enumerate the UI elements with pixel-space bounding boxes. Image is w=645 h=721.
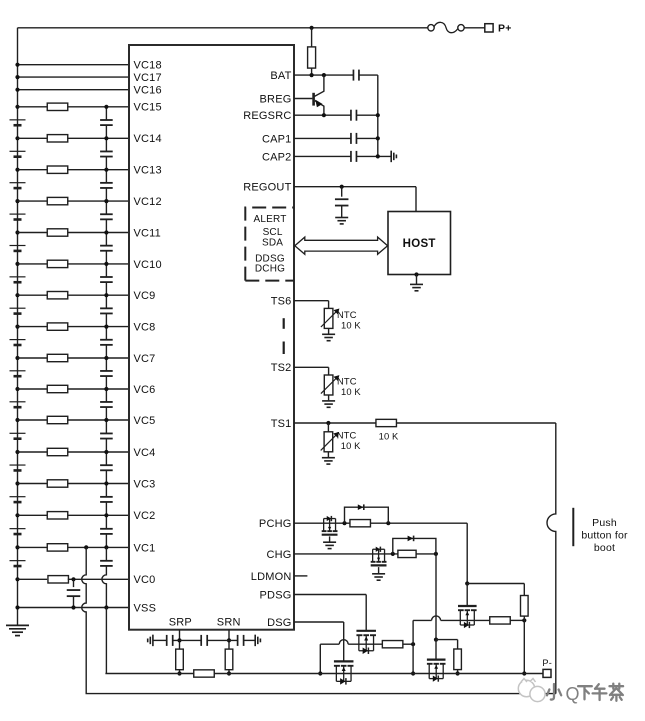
svg-text:REGOUT: REGOUT bbox=[243, 182, 291, 194]
svg-text:Q: Q bbox=[566, 684, 580, 704]
svg-text:10 K: 10 K bbox=[341, 319, 361, 330]
svg-text:P+: P+ bbox=[498, 23, 512, 35]
svg-text:button for: button for bbox=[581, 530, 628, 542]
svg-text:DCHG: DCHG bbox=[255, 263, 285, 274]
svg-text:SRN: SRN bbox=[217, 617, 241, 629]
svg-text:boot: boot bbox=[594, 542, 615, 554]
svg-text:VC4: VC4 bbox=[134, 447, 156, 459]
svg-text:VC16: VC16 bbox=[134, 85, 162, 97]
svg-text:ALERT: ALERT bbox=[253, 214, 286, 225]
svg-text:HOST: HOST bbox=[403, 238, 436, 250]
svg-text:VC8: VC8 bbox=[134, 322, 156, 334]
svg-text:PCHG: PCHG bbox=[259, 518, 292, 530]
svg-text:REGSRC: REGSRC bbox=[243, 110, 291, 122]
svg-text:Push: Push bbox=[592, 517, 617, 529]
svg-text:LDMON: LDMON bbox=[251, 571, 292, 583]
svg-text:VC2: VC2 bbox=[134, 510, 156, 522]
svg-text:TS2: TS2 bbox=[271, 362, 292, 374]
svg-text:10 K: 10 K bbox=[341, 440, 361, 451]
svg-text:BAT: BAT bbox=[270, 70, 291, 82]
svg-text:VC6: VC6 bbox=[134, 384, 156, 396]
svg-text:VC9: VC9 bbox=[134, 290, 156, 302]
svg-text:VC1: VC1 bbox=[134, 542, 156, 554]
svg-text:SRP: SRP bbox=[169, 617, 192, 629]
svg-text:VC7: VC7 bbox=[134, 353, 156, 365]
svg-text:VC5: VC5 bbox=[134, 415, 156, 427]
svg-text:VC15: VC15 bbox=[134, 102, 162, 114]
svg-text:VC17: VC17 bbox=[134, 72, 162, 84]
svg-text:VC12: VC12 bbox=[134, 196, 162, 208]
svg-text:CHG: CHG bbox=[266, 549, 291, 561]
svg-text:PDSG: PDSG bbox=[260, 589, 292, 601]
svg-text:SDA: SDA bbox=[262, 237, 283, 248]
svg-text:VC13: VC13 bbox=[134, 165, 162, 177]
svg-text:NTC: NTC bbox=[337, 429, 357, 440]
svg-text:BREG: BREG bbox=[260, 93, 292, 105]
svg-text:VC10: VC10 bbox=[134, 259, 162, 271]
svg-text:DSG: DSG bbox=[267, 617, 291, 629]
svg-text:VC3: VC3 bbox=[134, 478, 156, 490]
svg-text:VC18: VC18 bbox=[134, 60, 162, 72]
svg-text:CAP2: CAP2 bbox=[262, 151, 292, 163]
svg-text:VC0: VC0 bbox=[134, 574, 156, 586]
svg-text:VC14: VC14 bbox=[134, 133, 162, 145]
svg-text:P-: P- bbox=[542, 658, 552, 668]
svg-text:VSS: VSS bbox=[134, 602, 157, 614]
svg-text:10 K: 10 K bbox=[341, 386, 361, 397]
svg-text:NTC: NTC bbox=[337, 309, 357, 320]
svg-text:TS6: TS6 bbox=[271, 296, 292, 308]
svg-text:TS1: TS1 bbox=[271, 418, 292, 430]
svg-text:10 K: 10 K bbox=[379, 430, 399, 441]
svg-text:NTC: NTC bbox=[337, 376, 357, 387]
svg-text:VC11: VC11 bbox=[134, 227, 162, 239]
svg-text:CAP1: CAP1 bbox=[262, 133, 292, 145]
